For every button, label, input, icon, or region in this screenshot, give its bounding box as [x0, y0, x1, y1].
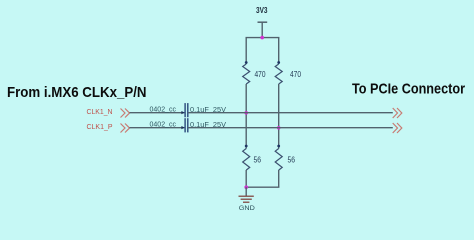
capacitor C2 pin arrow [181, 126, 184, 129]
svg-text:To PCIe Connector: To PCIe Connector [352, 81, 465, 98]
capacitor C1 pin arrow [181, 111, 184, 114]
pin dot R2 [277, 61, 280, 64]
node: junction CLK1_N / left branch [244, 111, 248, 115]
port chevron CLK1_P left [121, 124, 130, 133]
pin dot R4 [277, 145, 280, 148]
wire: left branch middle [245, 84, 247, 149]
svg-text:3V3: 3V3 [256, 6, 268, 15]
wire: right branch middle [278, 84, 280, 149]
port chevron CLK1_N right [393, 108, 402, 118]
resistor R1 470 (left pull-up) [243, 64, 250, 84]
wire: gnd stub [245, 187, 247, 196]
svg-text:CLK1_N: CLK1_N [87, 109, 113, 116]
wire CLK1_P right segment [188, 127, 393, 129]
resistor R3 56 (left pull-down) [243, 149, 250, 171]
wire CLK1_N right segment [188, 112, 393, 114]
port chevron CLK1_P right [393, 123, 402, 133]
wire CLK1_N left segment [130, 112, 185, 114]
resistor R2 470 (right pull-up) [275, 64, 282, 84]
svg-text:56: 56 [288, 156, 296, 165]
node: junction GND [244, 185, 248, 189]
wire: top rail [246, 37, 280, 39]
svg-text:470: 470 [255, 70, 266, 79]
svg-text:0402_cc: 0402_cc [150, 121, 177, 128]
wire: left branch lower [245, 170, 247, 187]
node: junction CLK1_P / right branch [277, 126, 281, 130]
pin dot R3 [245, 145, 248, 148]
port chevron CLK1_N left [121, 109, 130, 118]
wire: left branch upper [245, 38, 247, 64]
svg-text:470: 470 [290, 70, 301, 79]
svg-text:CLK1_P: CLK1_P [87, 124, 113, 131]
capacitor C2 0.1uF (plates) [184, 118, 186, 132]
svg-text:56: 56 [254, 156, 262, 165]
svg-text:0402_cc: 0402_cc [150, 106, 177, 113]
ground symbol [239, 195, 254, 197]
node: junction 3V3/rail [260, 36, 264, 40]
svg-text:GND: GND [239, 205, 255, 212]
resistor R4 56 (right pull-down) [275, 149, 282, 171]
capacitor C1 0.1uF (plates) [184, 103, 186, 117]
wire: right branch lower [278, 170, 280, 187]
svg-text:From i.MX6 CLKx_P/N: From i.MX6 CLKx_P/N [7, 84, 147, 101]
wire: right branch upper [278, 38, 280, 64]
power symbol 3V3 (T-bar) [258, 21, 268, 23]
wire: bottom rail [246, 186, 280, 188]
pin dot R1 [245, 61, 248, 64]
wire CLK1_P left segment [130, 127, 185, 129]
wire: 3V3 stub [261, 22, 263, 38]
